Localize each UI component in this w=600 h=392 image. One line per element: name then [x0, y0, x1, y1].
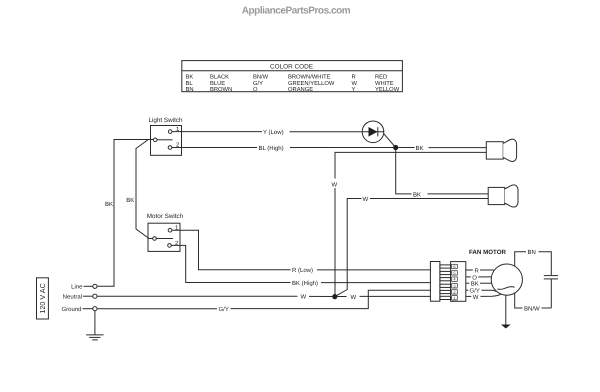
- svg-text:W: W: [301, 294, 307, 301]
- svg-text:BL (High): BL (High): [259, 145, 284, 152]
- wire W lamp 2 return: [336, 196, 489, 296]
- svg-text:Light Switch: Light Switch: [149, 117, 183, 124]
- svg-text:W: W: [332, 181, 338, 188]
- connector J1 pins: [440, 265, 451, 300]
- svg-text:Motor Switch: Motor Switch: [147, 213, 184, 220]
- wire BN: [515, 249, 552, 275]
- color code table: [182, 61, 403, 94]
- pin 1: [168, 228, 172, 232]
- svg-text:WHITE: WHITE: [375, 81, 394, 87]
- wire W motor: [466, 294, 502, 301]
- wire G/Y: [97, 290, 430, 313]
- svg-text:G/Y: G/Y: [470, 288, 480, 295]
- svg-text:BK: BK: [471, 281, 479, 288]
- wire R motor: [466, 267, 494, 274]
- wire O motor: [466, 274, 492, 281]
- svg-text:G/Y: G/Y: [253, 80, 263, 87]
- pin 2: [168, 244, 172, 248]
- svg-text:BN/W: BN/W: [524, 305, 540, 312]
- svg-text:Y (Low): Y (Low): [263, 129, 284, 136]
- svg-text:Y: Y: [352, 87, 356, 93]
- svg-text:W: W: [473, 294, 479, 301]
- svg-text:Line: Line: [71, 284, 83, 291]
- wire W neutral: [97, 294, 332, 301]
- node junction W: [332, 294, 337, 299]
- lamp L1: [486, 139, 516, 161]
- svg-text:FAN MOTOR: FAN MOTOR: [469, 249, 507, 256]
- node junction BK: [393, 145, 398, 150]
- node Line: [71, 284, 97, 291]
- motor M1 fan motor: [469, 249, 522, 295]
- switch blade: [157, 139, 173, 141]
- svg-text:G/Y: G/Y: [219, 306, 229, 313]
- node Ground: [61, 306, 97, 313]
- pin common: [153, 138, 157, 142]
- svg-text:ORANGE: ORANGE: [288, 86, 313, 93]
- svg-text:O: O: [253, 86, 258, 93]
- wire Y (Low): [172, 129, 362, 136]
- capacitor C1: [544, 276, 558, 308]
- svg-text:W: W: [351, 294, 357, 301]
- svg-text:BK: BK: [413, 191, 421, 198]
- svg-text:BLUE: BLUE: [210, 81, 225, 87]
- wire W to connector: [337, 294, 430, 301]
- svg-text:R: R: [475, 267, 480, 274]
- diode lamp D1: [362, 121, 396, 148]
- svg-text:BK: BK: [416, 145, 424, 152]
- svg-text:BK (High): BK (High): [292, 280, 318, 287]
- svg-text:YELLOW: YELLOW: [375, 86, 400, 93]
- ground arrow motor: [501, 295, 511, 328]
- svg-text:RED: RED: [375, 74, 387, 80]
- wire BK (High): [171, 245, 430, 287]
- switch blade: [156, 238, 173, 240]
- wire BK to lamp 1: [398, 145, 486, 152]
- svg-text:BK: BK: [126, 197, 134, 204]
- wire BK light switch to motor switch: [136, 140, 153, 239]
- svg-text:BN: BN: [528, 249, 536, 256]
- svg-text:AppliancePartsPros.com: AppliancePartsPros.com: [242, 6, 351, 17]
- svg-text:BROWN/WHITE: BROWN/WHITE: [288, 73, 331, 80]
- svg-text:BK: BK: [186, 74, 194, 80]
- svg-text:BK: BK: [105, 201, 113, 208]
- svg-text:R (Low): R (Low): [292, 267, 313, 274]
- svg-text:Neutral: Neutral: [63, 294, 82, 301]
- svg-text:BROWN: BROWN: [210, 86, 232, 93]
- wire R (Low): [172, 230, 430, 274]
- pin 2: [168, 146, 172, 150]
- switch S2 motor switch: [147, 213, 184, 251]
- svg-text:R: R: [352, 74, 356, 80]
- svg-text:W: W: [352, 81, 358, 87]
- wire BK line to light switch: [97, 140, 153, 287]
- svg-text:W: W: [363, 196, 369, 203]
- svg-text:Ground: Ground: [61, 306, 81, 313]
- wire BL (High): [172, 145, 394, 152]
- pin common: [153, 237, 157, 241]
- svg-text:120 V AC: 120 V AC: [38, 283, 47, 313]
- svg-text:BL: BL: [186, 81, 194, 87]
- svg-text:BLACK: BLACK: [210, 73, 229, 80]
- svg-text:BN: BN: [186, 87, 194, 93]
- wire G/Y motor: [466, 288, 497, 295]
- svg-text:COLOR CODE: COLOR CODE: [270, 64, 313, 71]
- svg-text:O: O: [472, 274, 477, 281]
- wire diode to node: [384, 134, 396, 148]
- svg-text:GREEN/YELLOW: GREEN/YELLOW: [288, 80, 335, 87]
- switch S1 light switch: [149, 117, 183, 155]
- node Neutral: [63, 294, 97, 301]
- wire BK to lamp 2: [396, 150, 489, 198]
- connector J1 housing: [430, 262, 440, 302]
- lamp L2: [488, 185, 518, 207]
- svg-text:BN/W: BN/W: [253, 73, 269, 80]
- wire W lamp 1 return: [332, 152, 487, 296]
- wire BN/W: [515, 293, 552, 312]
- source 120 V AC: [37, 278, 49, 319]
- wire BK motor: [466, 281, 492, 288]
- pin 1: [168, 130, 172, 134]
- ground symbol: [86, 311, 103, 340]
- connector J1 header: [451, 262, 466, 302]
